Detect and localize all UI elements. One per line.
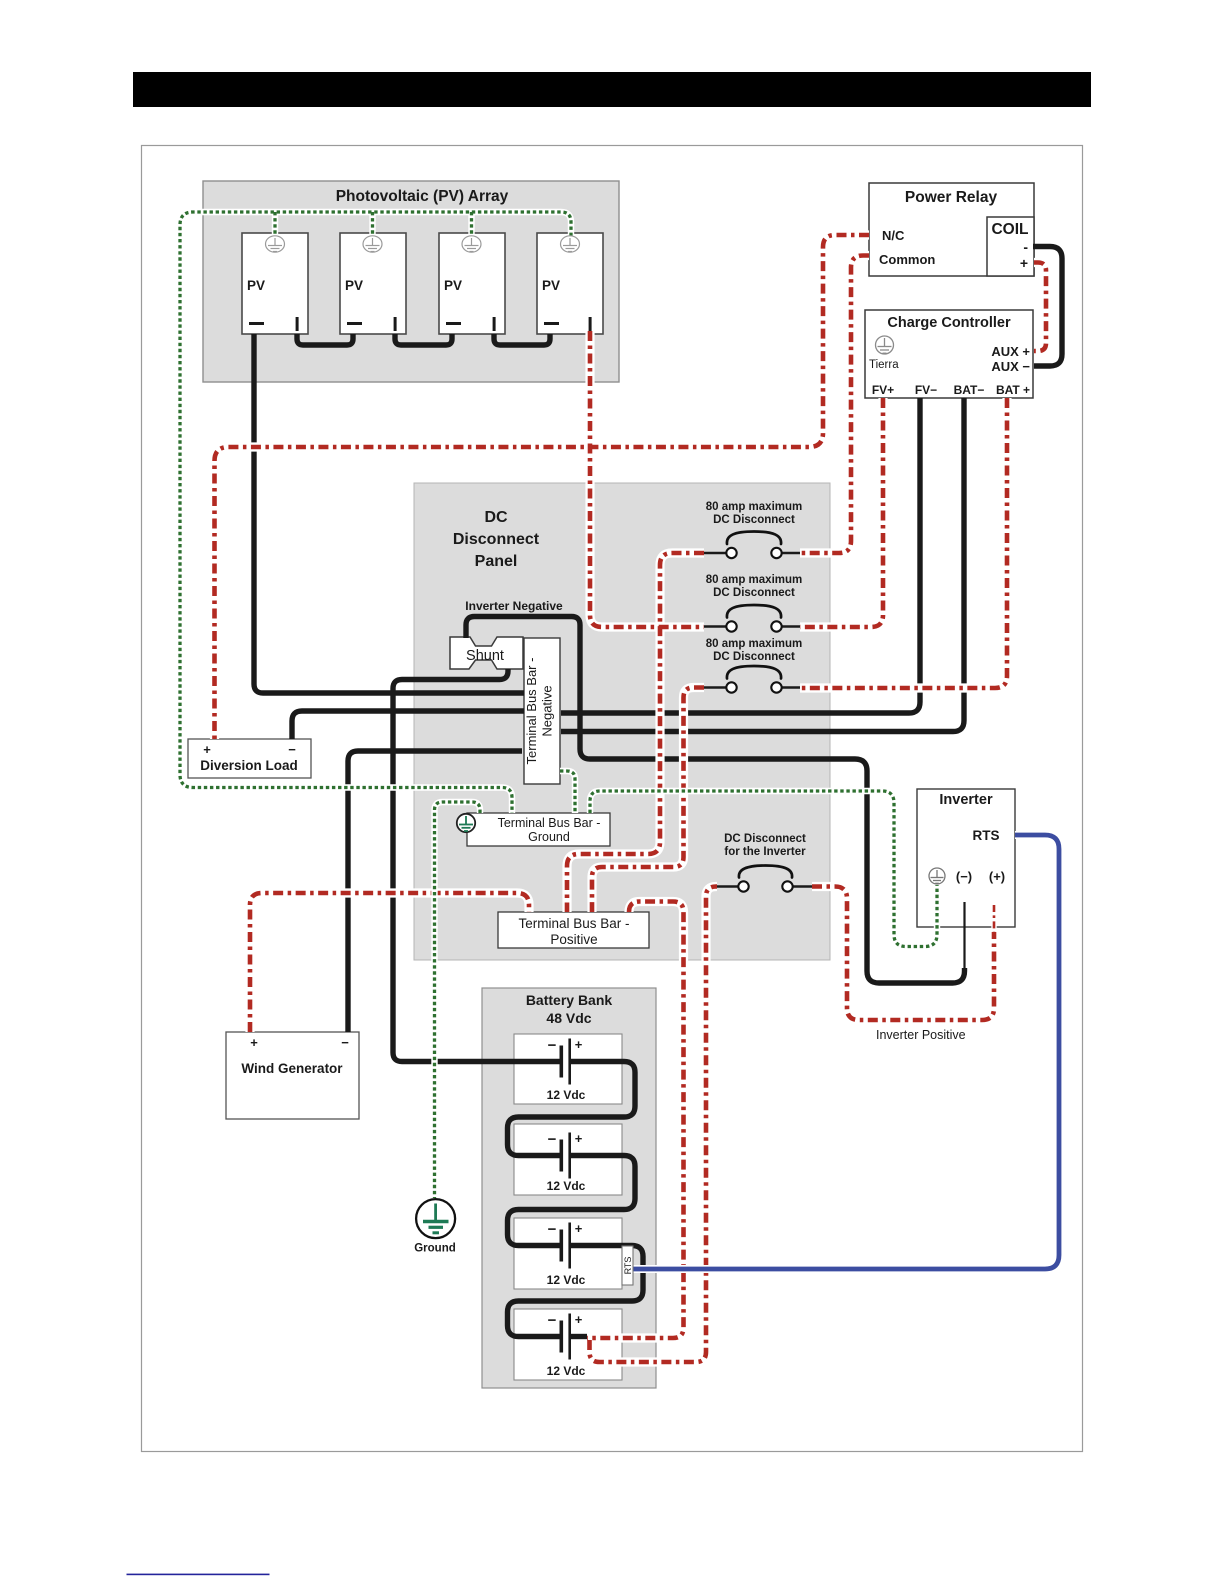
svg-text:Shunt: Shunt [466,648,504,664]
svg-text:80 amp maximum: 80 amp maximum [706,638,803,650]
wire battery4 + to inverter disconnect left [590,887,718,1363]
stub switch2 right [781,625,801,628]
svg-text:+: + [575,1037,583,1052]
wire relay Common to DC disconnect 1 right [800,256,869,554]
PV module 4 ground mark [561,236,580,252]
svg-text:(−): (−) [956,869,972,884]
svg-text:12 Vdc: 12 Vdc [547,1364,586,1378]
svg-text:FV+: FV+ [872,383,894,397]
svg-text:Common: Common [879,252,935,267]
wire relay COIL - to controller AUX - [1033,247,1062,367]
svg-text:N/C: N/C [882,228,905,243]
wire controller BAT+ to DC disconnect 3 right [800,398,1007,688]
PV module 2 [340,233,406,334]
svg-text:RTS: RTS [623,1257,633,1275]
svg-text:−: − [548,1131,557,1148]
wire inverter disconnect right to inverter (+) [812,887,994,1021]
svg-text:BAT−: BAT− [954,383,985,397]
GREEN-WIRES [180,212,937,1198]
thin stub inverter (+) lead [991,905,996,932]
svg-text:−: − [288,742,296,757]
svg-text:12 Vdc: 12 Vdc [547,1273,586,1287]
svg-text:Inverter Negative: Inverter Negative [465,599,563,613]
svg-text:Wind Generator: Wind Generator [241,1061,343,1076]
RTS sensor box on battery 3 [622,1246,633,1285]
PV module 3 [439,233,505,334]
thin stub inverter (-) lead [963,902,965,969]
svg-text:Ground: Ground [414,1243,456,1255]
outer frame [142,146,1083,1452]
svg-text:12 Vdc: 12 Vdc [547,1088,586,1102]
wire DC disconnect 1 left to positive bus bar [567,553,704,912]
svg-text:PV: PV [345,278,363,293]
Wind Generator box [226,1032,359,1119]
Charge Controller box [865,310,1033,398]
svg-text:DC Disconnect: DC Disconnect [724,833,806,845]
wire negative bus bar to ground bus bar [560,771,575,813]
Diversion Load box [188,739,311,778]
svg-text:FV−: FV− [915,383,937,397]
svg-text:Negative: Negative [540,685,555,736]
stub switch2 left [703,625,727,628]
battery 4 plates [560,1314,572,1360]
wire PV array grounds to ground bus bar [180,212,571,813]
PV module 1 ground mark [266,236,285,252]
svg-text:+: + [575,1131,583,1146]
wire shunt bottom to battery 1 minus [393,669,560,1062]
svg-text:Terminal Bus Bar -: Terminal Bus Bar - [524,658,539,765]
svg-text:48 Vdc: 48 Vdc [546,1010,591,1026]
battery 3 plates [560,1223,572,1269]
svg-text:+: + [203,742,211,757]
svg-text:PV: PV [444,278,462,293]
svg-text:−: − [341,1035,349,1050]
svg-text:Disconnect: Disconnect [453,531,540,548]
wire PV1 negative to negative bus bar [254,334,524,693]
stub switch1 right [781,552,801,555]
wire relay N/C to Diversion Load + [215,235,870,739]
svg-text:Panel: Panel [475,553,518,570]
svg-text:for the Inverter: for the Inverter [724,846,806,858]
wire negative bus bar to Wind Generator minus [348,751,522,1032]
inverter ground mark [929,868,945,884]
switch stubs [703,553,812,887]
svg-text:Diversion Load: Diversion Load [200,758,298,773]
svg-text:DC Disconnect: DC Disconnect [713,514,795,526]
footnote rule [127,1574,270,1576]
PV module 4 [537,233,603,334]
stub inverter-disconnect right [792,885,812,888]
svg-text:AUX −: AUX − [991,359,1030,374]
svg-text:Ground: Ground [528,830,570,844]
DC disconnect 2 switch [726,621,781,631]
wire PV3+ to PV4- [494,334,550,345]
battery 2 plates [560,1133,572,1179]
COIL sub-box [987,217,1034,276]
svg-text:Terminal Bus Bar -: Terminal Bus Bar - [498,816,601,830]
svg-text:DC: DC [484,509,508,526]
svg-text:Power Relay: Power Relay [905,189,998,206]
battery4 plus stub [571,1334,587,1339]
wire controller FV+ to DC disconnect 2 right [800,398,883,627]
svg-text:PV: PV [542,278,560,293]
svg-text:-: - [1023,239,1028,255]
redacted title bar [133,72,1091,107]
ground bus bar mark [457,814,475,832]
Terminal Bus Bar - Negative box [524,638,560,784]
svg-text:+: + [1020,255,1028,271]
wire PV1+ to PV2- [297,334,353,345]
wire battery1 plus to battery2 minus [508,1062,636,1156]
svg-text:−: − [548,1221,557,1238]
Battery Bank enclosure [482,988,656,1388]
svg-text:−: − [548,1037,557,1054]
battery 1 plates [560,1039,572,1085]
svg-text:DC Disconnect: DC Disconnect [713,587,795,599]
svg-text:+: + [575,1312,583,1327]
wire battery2 plus to battery3 minus [508,1156,636,1246]
PV1 ground drop [273,212,276,236]
svg-text:12 Vdc: 12 Vdc [547,1179,586,1193]
Terminal Bus Bar - Ground box [467,813,610,846]
Shunt (dog-bone shaped) [450,637,523,669]
svg-text:Inverter: Inverter [939,792,993,808]
svg-text:AUX +: AUX + [991,344,1030,359]
svg-text:Battery Bank: Battery Bank [526,992,613,1008]
svg-text:−: − [548,1312,557,1329]
svg-text:RTS: RTS [973,828,1000,843]
RED-WIRES [215,235,1047,1362]
wire ground bus bar to Ground rod [435,802,481,1198]
DC Disconnect Panel enclosure [414,483,830,960]
battery 4 case [514,1309,622,1380]
svg-text:80 amp maximum: 80 amp maximum [706,501,803,513]
svg-text:Positive: Positive [550,932,597,947]
battery 3 case [514,1218,622,1289]
svg-text:Inverter Positive: Inverter Positive [876,1028,966,1042]
battery 2 case [514,1124,622,1195]
wire DC disconnect 3 left to positive bus bar [592,688,704,913]
Power Relay box [869,183,1034,276]
BLACK-WIRES [254,247,1062,1337]
wire inverter negative: shunt top to inverter (-) [466,617,965,984]
svg-text:Tierra: Tierra [869,359,899,371]
DC disconnect 1 switch [726,548,781,558]
svg-text:Terminal Bus Bar -: Terminal Bus Bar - [518,916,629,931]
PV3 ground drop [470,212,473,236]
svg-text:COIL: COIL [991,221,1028,238]
svg-text:Photovoltaic (PV) Array: Photovoltaic (PV) Array [336,188,509,205]
stub switch3 left [703,686,727,689]
svg-text:+: + [250,1035,258,1050]
Photovoltaic (PV) Array enclosure [203,181,619,382]
DC disconnect for the inverter switch [738,881,792,891]
DC disconnect 3 switch [726,682,781,692]
svg-text:BAT +: BAT + [996,383,1030,397]
PV module 1 [242,233,308,334]
wire charge controller BAT- to negative bus bar [561,398,964,732]
PV module 2 ground mark [363,236,382,252]
PV2 ground drop [371,212,374,236]
PV module 3 ground mark [462,236,481,252]
stub inverter-disconnect left [716,885,739,888]
svg-text:Charge Controller: Charge Controller [887,315,1011,331]
svg-text:(+): (+) [989,869,1005,884]
wire relay COIL + to controller AUX + [1034,263,1046,352]
wire Wind Generator + to positive bus bar [250,893,529,1032]
wire charge controller FV- to negative bus bar [561,398,920,713]
stub switch3 right [781,686,801,689]
wire negative bus bar to Diversion Load minus [292,711,524,739]
Inverter box [917,789,1015,927]
PV module minus/plus terminal marks [249,317,592,331]
wire inverter RTS to battery3 RTS sensor [633,835,1059,1269]
Ground rod symbol [416,1199,455,1238]
svg-text:80 amp maximum: 80 amp maximum [706,574,803,586]
svg-text:+: + [575,1221,583,1236]
wire battery3 plus to battery4 minus (around RTS) [508,1246,644,1337]
stub switch1 left [703,552,727,555]
Terminal Bus Bar - Positive box [498,912,649,948]
wire PV4 + to DC disconnect 2 left [590,331,704,627]
battery 1 case [514,1034,622,1104]
wire ground bus bar to inverter ground [590,791,937,947]
wire PV2+ to PV3- [395,334,452,345]
charge controller ground mark (Tierra) [876,336,894,354]
svg-text:PV: PV [247,278,265,293]
wire positive bus bar to battery4 + [587,902,684,1339]
svg-text:DC Disconnect: DC Disconnect [713,651,795,663]
